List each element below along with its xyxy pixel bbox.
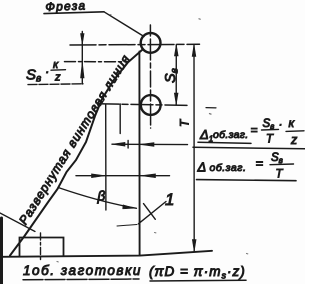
svg-text:z: z <box>54 72 61 84</box>
bottom label one revolution of workpiece <box>23 263 142 280</box>
centerline through top cutter <box>70 43 200 46</box>
svg-text:·: · <box>279 117 283 131</box>
frame left border <box>0 218 3 284</box>
auxiliary thin line bottom left <box>0 213 35 232</box>
svg-text:(πD = π·ms·z): (πD = π·ms·z) <box>149 264 246 281</box>
helix text label <box>16 50 136 227</box>
svg-text:z: z <box>290 133 298 147</box>
workpiece rectangle <box>20 238 64 256</box>
svg-text:Δ: Δ <box>197 160 207 175</box>
svg-text:об.заг.: об.заг. <box>210 162 247 174</box>
svg-text:·: · <box>45 64 49 79</box>
dimension delta horizontal <box>76 174 170 178</box>
bottom formula piD <box>149 264 246 281</box>
dimension Sv right side <box>163 45 181 105</box>
dimension T right side <box>178 45 197 252</box>
svg-text:=: = <box>256 156 264 171</box>
extension tick at 128 <box>127 141 129 149</box>
rectangle centerline <box>40 233 42 260</box>
svg-text:=: = <box>251 123 258 137</box>
formula delta <box>197 152 297 181</box>
formula delta1 <box>198 116 304 147</box>
svg-text:1: 1 <box>165 190 174 209</box>
baseline one revolution <box>2 251 212 257</box>
dimension delta1 horizontal <box>112 142 188 146</box>
separator rule <box>193 147 305 149</box>
svg-text:к: к <box>53 59 59 71</box>
leader line to cutter <box>104 12 144 37</box>
paper specks <box>57 15 248 262</box>
angle beta arc <box>59 188 137 209</box>
label 1 with leader ticks <box>117 190 174 226</box>
dimension Sv k/z vertical with arrows <box>81 32 85 85</box>
milling cutter circle top <box>141 33 161 53</box>
svg-text:T: T <box>266 134 274 146</box>
main vertical line (workpiece axis) <box>138 52 140 256</box>
feed line at Sv k/z level <box>65 61 128 63</box>
milling cutter circle bottom <box>141 95 161 115</box>
vertical centerline of cutters <box>149 25 151 128</box>
small stray mark <box>206 107 216 109</box>
centerline through bottom cutter <box>97 104 189 106</box>
helix line developed <box>10 50 142 256</box>
projection line from helix at cutter2 centerline <box>105 105 107 210</box>
label Фреза <box>44 0 104 14</box>
formula Sv k/z <box>26 59 83 85</box>
svg-text:β: β <box>97 189 106 204</box>
svg-text:об.заг.: об.заг. <box>213 129 248 141</box>
svg-text:1об. заготовки: 1об. заготовки <box>23 263 142 278</box>
svg-text:T: T <box>276 169 284 181</box>
projection line short upper <box>119 104 121 134</box>
